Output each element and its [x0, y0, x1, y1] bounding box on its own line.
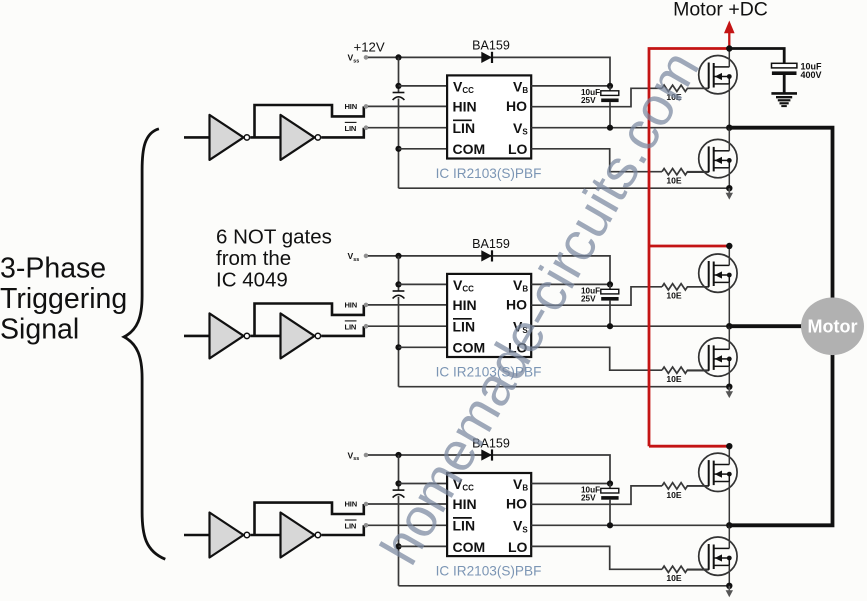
capacitor ch2 bootstrap 10uF 25V [609, 284, 611, 289]
diode D3 BA159 [481, 449, 492, 460]
resistor ch1 10E low [662, 169, 709, 175]
capacitor ch2 decoupling [393, 290, 405, 292]
wire ch2 HIN [255, 304, 364, 336]
wire ch3 HO [531, 486, 662, 504]
svg-text:Motor: Motor [808, 317, 858, 337]
wire ch1 high source [728, 84, 730, 128]
op-amp driver U3 IC IR2103 [447, 473, 531, 556]
wire ch1 ground rail [399, 187, 730, 189]
wire ch2 between gates [250, 335, 281, 338]
wire ch1 +12V rail [368, 57, 610, 86]
wire ch1 high drain [728, 49, 730, 67]
wire ch2 LO [531, 347, 662, 370]
svg-text:LIN: LIN [453, 120, 476, 136]
node ch2 COM junction [395, 344, 401, 350]
node DC rail junction ch1 [726, 45, 732, 51]
wire ch2 low source [728, 366, 730, 386]
svg-text:HO: HO [506, 495, 527, 511]
wire ch2 ground drop [398, 297, 400, 387]
brace 3-phase group [124, 129, 165, 559]
wire ch3 Vcc pin [399, 483, 448, 485]
transistor Q1H MOSFET [688, 55, 738, 93]
node ch2 ground junction [726, 384, 732, 390]
svg-text:10E: 10E [666, 291, 682, 301]
op-amp driver U1 IC IR2103 [447, 75, 531, 158]
node ch3 ground junction [726, 583, 732, 589]
node ch1 VB junction [607, 83, 613, 89]
wire ch1 LIN to IC [368, 127, 447, 129]
svg-text:COM: COM [453, 141, 486, 157]
wire ch2 high source [728, 282, 730, 326]
node ch3 VB junction [607, 480, 613, 486]
wire ch3 LIN to IC [368, 524, 447, 526]
svg-text:BA159: BA159 [472, 39, 510, 53]
wire ch3 VB [531, 483, 610, 485]
diode D2 BA159 [481, 250, 492, 261]
capacitor ch3 decoupling [393, 489, 405, 491]
wire ch2 HO [531, 287, 662, 305]
svg-text:LIN: LIN [345, 521, 357, 530]
svg-text:LO: LO [508, 539, 528, 555]
wire ch3 VS [531, 524, 729, 526]
svg-text:3-Phase: 3-Phase [0, 253, 106, 285]
arrow Motor +DC [728, 32, 730, 49]
node ch2 LIN terminal [364, 324, 369, 329]
wire ch3 HIN to IC [368, 503, 447, 505]
wire +DC bus red [649, 49, 729, 447]
capacitor ch1 decoupling [393, 92, 405, 94]
node ch3 phase junction [726, 522, 732, 528]
svg-text:10E: 10E [666, 573, 682, 583]
wire ch3 between gates [250, 534, 281, 537]
svg-text:HIN: HIN [345, 102, 357, 111]
wire ch1 VS [531, 127, 729, 129]
wire ch3 ground drop [398, 496, 400, 586]
svg-text:Motor +DC: Motor +DC [673, 0, 768, 20]
svg-text:IC IR2103(S)PBF: IC IR2103(S)PBF [436, 563, 542, 578]
wire ch3 LO [531, 546, 662, 569]
NOT gate U3a [210, 513, 244, 558]
wire phase 2 [729, 324, 805, 328]
svg-text:10E: 10E [666, 374, 682, 384]
svg-text:LIN: LIN [345, 124, 357, 133]
wire phase 3 [729, 354, 832, 525]
transistor Q3L MOSFET [688, 537, 738, 575]
svg-text:HIN: HIN [453, 98, 477, 114]
svg-text:BA159: BA159 [472, 237, 510, 251]
svg-text:25V: 25V [581, 295, 596, 304]
svg-text:LO: LO [508, 141, 528, 157]
svg-text:25V: 25V [581, 494, 596, 503]
wire ch2 LIN [321, 326, 364, 336]
wire red branch ch3 [649, 445, 729, 448]
svg-text:from the: from the [216, 247, 291, 270]
resistor ch3 10E high [662, 483, 709, 489]
node ch3 cap-VS junction [607, 522, 613, 528]
wire ch2 VS [531, 325, 729, 327]
node ch1 Vss terminal [364, 55, 369, 60]
wire ch1 between gates [250, 136, 281, 139]
wire ch1 VB [531, 85, 610, 87]
motor M [801, 298, 864, 356]
node ch3 LIN terminal [364, 523, 369, 528]
wire ch1 LO [531, 149, 662, 172]
diode D1 BA159 [481, 52, 492, 63]
ground arrow ch2 [728, 387, 730, 392]
svg-text:10E: 10E [666, 176, 682, 186]
ground arrow ch1 [728, 188, 730, 193]
node ch1 rail junction [395, 54, 401, 60]
op-amp driver U2 IC IR2103 [447, 274, 531, 357]
wire ch2 LIN to IC [368, 325, 447, 327]
wire ch2 +12V rail [368, 256, 610, 285]
NOT gate U1b [281, 115, 315, 160]
transistor Q1L MOSFET [688, 139, 738, 177]
node ch1 phase junction [726, 125, 732, 131]
wire ch1 low source [728, 168, 730, 188]
node ch3 Vcc junction [395, 480, 401, 486]
wire ch2 high drain [728, 246, 730, 265]
wire ch2 Vcc drop [398, 256, 400, 291]
wire ch1 LIN [321, 128, 364, 138]
wire ch3 COM pin [399, 545, 448, 547]
node ch3 Vss terminal [364, 453, 369, 458]
NOT gate U3b [281, 513, 315, 558]
node ch2 rail junction [395, 253, 401, 259]
svg-text:400V: 400V [801, 70, 822, 80]
ground arrow ch3 [728, 586, 730, 591]
wire ch2 VB [531, 283, 610, 285]
NOT gate U2a [210, 313, 244, 358]
node ch2 cap-VS junction [607, 323, 613, 329]
wire ch3 LIN [321, 525, 364, 535]
capacitor ch1 bootstrap 10uF 25V [609, 86, 611, 91]
capacitor ch3 bootstrap 10uF 25V [609, 484, 611, 489]
wire ch3 Vcc drop [398, 455, 400, 490]
node ch3 HIN terminal [364, 502, 369, 507]
resistor ch2 10E low [662, 367, 709, 373]
transistor Q3H MOSFET [688, 453, 738, 491]
NOT gate U2b [281, 313, 315, 358]
wire ch1 input [184, 136, 210, 139]
node ch2 Vss terminal [364, 254, 369, 259]
wire ch2 COM pin [399, 346, 448, 348]
resistor ch3 10E low [662, 566, 709, 572]
transistor Q2L MOSFET [688, 338, 738, 376]
wire ch1 HIN to IC [368, 105, 447, 107]
wire ch1 ground drop [398, 99, 400, 189]
wire ch1 Vcc drop [398, 57, 400, 92]
svg-text:LIN: LIN [453, 518, 476, 534]
svg-text:HIN: HIN [345, 300, 357, 309]
node ch2 phase junction [726, 323, 732, 329]
svg-text:IC 4049: IC 4049 [216, 269, 288, 292]
wire ch1 HIN [255, 105, 364, 137]
wire ch3 high source [728, 482, 730, 526]
svg-text:HIN: HIN [345, 500, 357, 509]
NOT gate U1a [210, 115, 244, 160]
wire ch3 HIN [255, 503, 364, 535]
node DC rail junction ch3 [726, 443, 732, 449]
node ch1 HIN terminal [364, 104, 369, 109]
wire ch3 input [184, 534, 210, 537]
svg-text:LIN: LIN [345, 322, 357, 331]
svg-text:Signal: Signal [0, 314, 79, 346]
svg-text:25V: 25V [581, 96, 596, 105]
node ch3 COM junction [395, 543, 401, 549]
node ch1 COM junction [395, 146, 401, 152]
node ch2 HIN terminal [364, 303, 369, 308]
wire ch2 Vcc pin [399, 283, 448, 285]
wire top DC rail [729, 49, 784, 64]
svg-text:6 NOT gates: 6 NOT gates [216, 226, 332, 249]
wire ch1 COM pin [399, 148, 448, 150]
wire phase 1 [729, 128, 832, 299]
node ch1 Vcc junction [395, 83, 401, 89]
node ch3 rail junction [395, 452, 401, 458]
wire red branch ch2 [649, 245, 729, 248]
wire ch1 HO [531, 88, 662, 106]
wire ch2 low drain [728, 326, 730, 349]
node DC rail junction ch2 [726, 243, 732, 249]
svg-text:HO: HO [506, 98, 527, 114]
wire ch2 ground rail [399, 386, 730, 388]
transistor Q2H MOSFET [688, 254, 738, 292]
svg-text:COM: COM [453, 539, 486, 555]
capacitor C filter 10uF 400V [772, 63, 797, 68]
node ch1 cap-VS junction [607, 125, 613, 131]
wire ch3 ground rail [399, 585, 730, 587]
svg-text:HIN: HIN [453, 297, 477, 313]
wire ch3 low drain [728, 525, 730, 548]
wire ch3 low source [728, 565, 730, 585]
svg-text:+12V: +12V [354, 40, 385, 55]
resistor ch1 10E high [662, 85, 709, 91]
wire ch2 input [184, 335, 210, 338]
svg-text:Triggering: Triggering [0, 283, 127, 315]
svg-text:IC IR2103(S)PBF: IC IR2103(S)PBF [436, 166, 542, 181]
node ch1 LIN terminal [364, 125, 369, 130]
wire ch3 +12V rail [368, 455, 610, 484]
wire ch3 high drain [728, 446, 730, 464]
node ch1 ground junction [726, 185, 732, 191]
node ch2 Vcc junction [395, 281, 401, 287]
ground [771, 92, 797, 95]
node ch2 VB junction [607, 281, 613, 287]
wire ch1 low drain [728, 128, 730, 151]
svg-text:LIN: LIN [453, 318, 476, 334]
wire ch2 HIN to IC [368, 304, 447, 306]
svg-text:10E: 10E [666, 490, 682, 500]
wire ch1 Vcc pin [399, 85, 448, 87]
resistor ch2 10E high [662, 284, 709, 290]
